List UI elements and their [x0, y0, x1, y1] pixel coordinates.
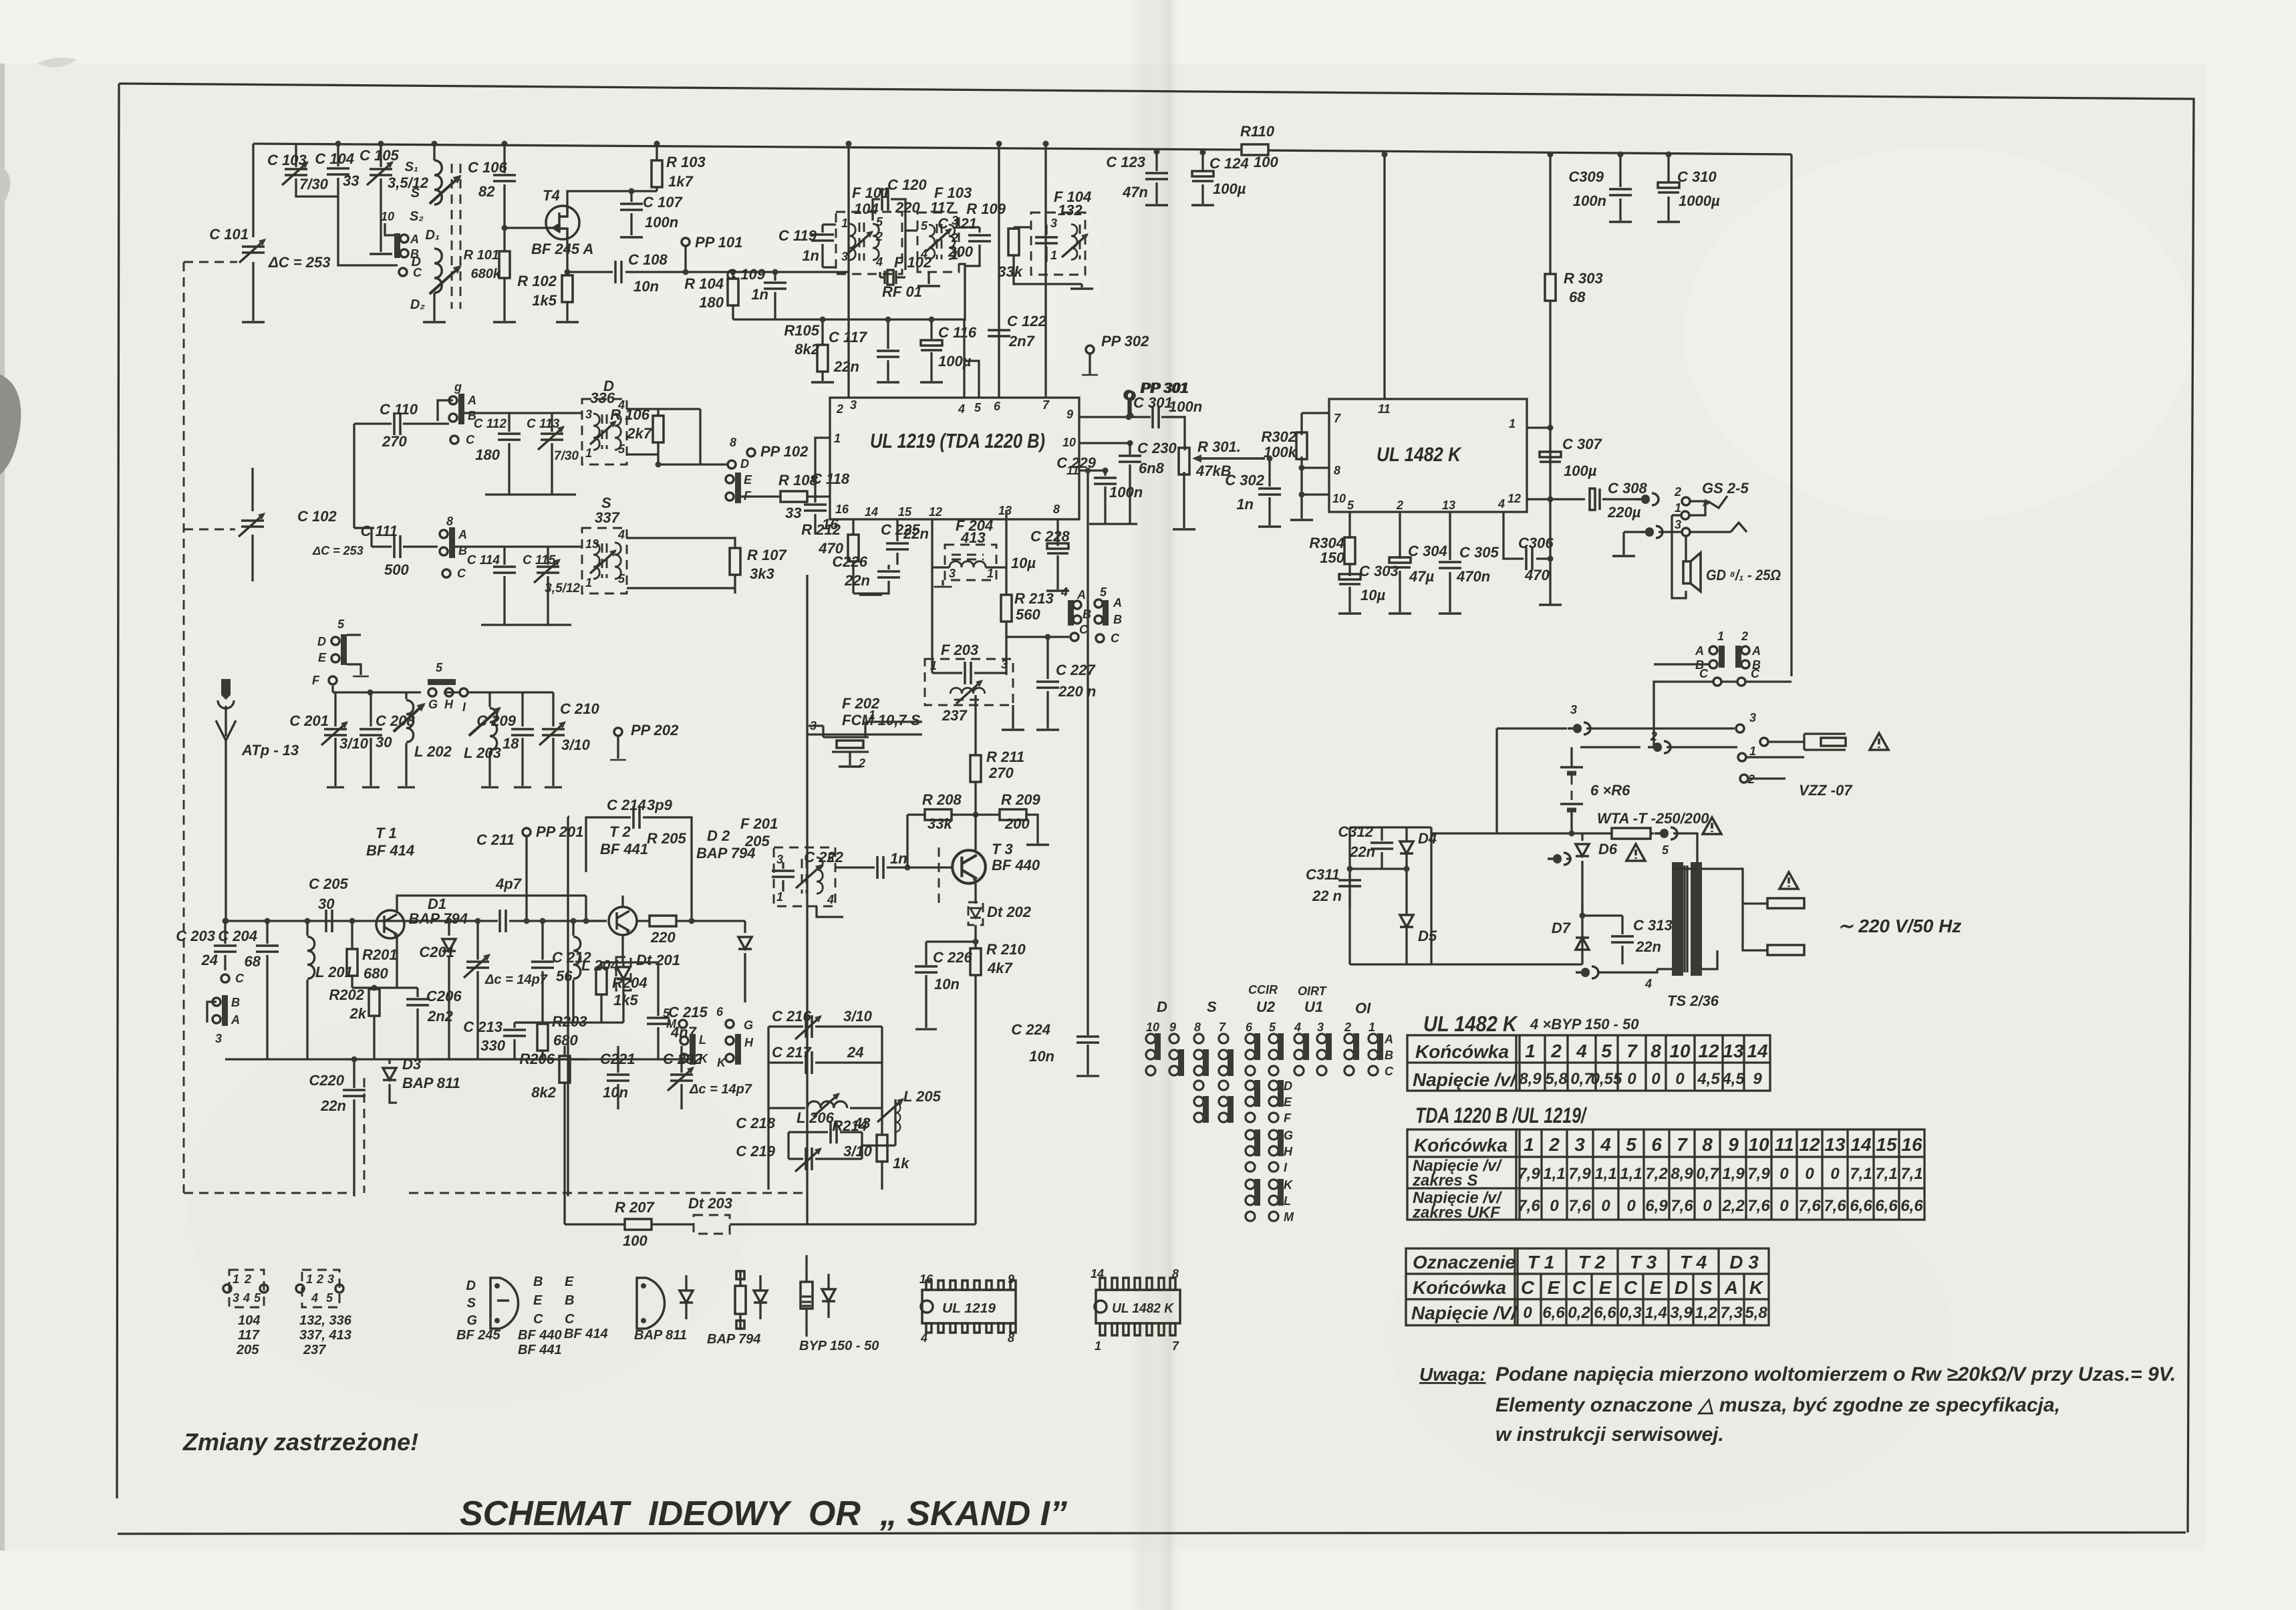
svg-text:7,6: 7,6 [1824, 1197, 1846, 1215]
capacitor C109 [772, 269, 778, 275]
svg-text:C 218: C 218 [736, 1115, 775, 1131]
svg-text:BF 414: BF 414 [366, 842, 414, 859]
svg-text:BYP 150 - 50: BYP 150 - 50 [799, 1339, 879, 1353]
capacitor C102 [251, 468, 253, 581]
capacitor C211 [500, 910, 506, 932]
capacitor C116 electrolytic [921, 340, 942, 350]
legend transistor BF245 [490, 1278, 519, 1329]
svg-text:D 3: D 3 [1729, 1252, 1759, 1272]
svg-text:3: 3 [1001, 658, 1008, 671]
svg-text:14: 14 [1850, 1134, 1872, 1155]
svg-text:C: C [466, 433, 475, 446]
svg-text:C 226: C 226 [933, 949, 972, 966]
svg-text:B: B [410, 247, 419, 261]
svg-text:10n: 10n [603, 1084, 628, 1101]
capacitor C204 [265, 918, 271, 924]
svg-text:B: B [565, 1293, 574, 1308]
svg-text:C: C [235, 972, 245, 985]
svg-text:Zmiany zastrzeżone!: Zmiany zastrzeżone! [182, 1428, 418, 1456]
svg-text:C 302: C 302 [1225, 472, 1264, 489]
svg-text:12: 12 [1799, 1134, 1820, 1155]
jack VZZ-07 [1568, 722, 1590, 734]
fold crease band [1128, 0, 1180, 1610]
svg-text:100µ: 100µ [1213, 180, 1246, 197]
svg-text:6n8: 6n8 [1139, 460, 1165, 477]
tuning arrow S [430, 175, 462, 204]
svg-text:0: 0 [1523, 1304, 1532, 1322]
svg-text:16: 16 [1901, 1134, 1922, 1155]
svg-text:1: 1 [1095, 1339, 1101, 1353]
capacitor C227 [1046, 637, 1048, 728]
ground [877, 382, 899, 383]
svg-text:A: A [467, 394, 476, 407]
capacitor C112 [508, 413, 510, 495]
svg-text:A: A [231, 1013, 240, 1027]
svg-text:470: 470 [1524, 567, 1550, 583]
svg-text:33k: 33k [927, 815, 953, 832]
svg-text:D: D [1157, 998, 1167, 1015]
capacitor C230 [1129, 443, 1131, 523]
legend DIP UL1482K [1096, 1290, 1180, 1323]
svg-text:TDA 1220 B /UL 1219/: TDA 1220 B /UL 1219/ [1415, 1103, 1587, 1127]
svg-text:5: 5 [1269, 1021, 1276, 1034]
svg-text:T 1: T 1 [376, 825, 397, 841]
svg-text:Końcówka: Końcówka [1414, 1135, 1508, 1156]
svg-text:82: 82 [478, 183, 495, 200]
svg-text:2: 2 [316, 1272, 323, 1286]
svg-text:6,6: 6,6 [1875, 1197, 1898, 1215]
svg-text:12: 12 [1508, 492, 1521, 505]
svg-text:1: 1 [233, 1272, 239, 1286]
svg-text:C: C [1699, 667, 1709, 680]
node T4 source [565, 269, 571, 275]
IF transformer S 337 [582, 528, 627, 593]
svg-text:13: 13 [1824, 1134, 1846, 1155]
svg-text:2: 2 [875, 230, 883, 243]
svg-text:220µ: 220µ [1607, 504, 1641, 521]
node [335, 141, 341, 147]
capacitor C210 [552, 692, 554, 786]
svg-text:413: 413 [960, 529, 986, 546]
svg-text:5,8: 5,8 [1745, 1304, 1767, 1322]
svg-text:180: 180 [699, 294, 724, 311]
svg-text:T 2: T 2 [609, 823, 631, 840]
diode D6 [1548, 853, 1570, 865]
svg-text:C 222: C 222 [804, 849, 843, 865]
svg-text:68: 68 [245, 953, 261, 970]
wire F103 in/out [905, 227, 980, 321]
filter F203 [925, 659, 1013, 705]
resistor R106 [627, 409, 658, 464]
switch contact A B second [440, 527, 455, 558]
svg-text:4: 4 [827, 893, 834, 906]
svg-text:BF 441: BF 441 [518, 1343, 562, 1357]
svg-text:2: 2 [858, 757, 865, 770]
svg-text:68: 68 [1569, 289, 1586, 305]
svg-text:SCHEMAT IDEOWY OR „ SKAND I: SCHEMAT IDEOWY OR „ SKAND I” [460, 1494, 1067, 1533]
svg-text:T 2: T 2 [1578, 1252, 1606, 1272]
scanner shadow blob left edge [0, 374, 21, 475]
svg-text:7,1: 7,1 [1900, 1165, 1922, 1183]
wire tuning upper rail [333, 686, 553, 692]
capacitor C220 [353, 1059, 355, 1196]
svg-text:1n: 1n [890, 850, 907, 867]
svg-text:C226: C226 [832, 553, 867, 570]
svg-text:336: 336 [590, 390, 615, 406]
svg-text:WTA -T -250/200: WTA -T -250/200 [1597, 810, 1709, 827]
svg-text:270: 270 [988, 765, 1014, 781]
svg-text:22 n: 22 n [1312, 888, 1342, 904]
svg-text:UL 1482 K: UL 1482 K [1423, 1012, 1519, 1036]
svg-text:A: A [1113, 596, 1122, 610]
svg-text:3: 3 [585, 408, 592, 421]
capacitor C101 [242, 247, 265, 253]
svg-text:2: 2 [1674, 485, 1681, 499]
svg-text:10n: 10n [934, 976, 960, 992]
capacitor C311 [1350, 869, 1407, 909]
svg-text:C 227: C 227 [1056, 662, 1096, 678]
antenna ATp-13 [216, 706, 236, 921]
wire T2 base/emitter [586, 896, 623, 962]
svg-text:5: 5 [876, 215, 883, 229]
svg-text:L 205: L 205 [903, 1088, 942, 1105]
wire top supply bus [253, 144, 1791, 154]
wire C106 branch [503, 144, 505, 321]
resistor R302 [1302, 413, 1329, 519]
svg-text:T 4: T 4 [1680, 1252, 1707, 1272]
svg-text:2: 2 [1550, 1041, 1562, 1061]
svg-text:B: B [231, 996, 240, 1009]
svg-text:7,6: 7,6 [1747, 1197, 1770, 1215]
svg-text:4: 4 [1060, 585, 1068, 599]
svg-text:3: 3 [1050, 217, 1057, 230]
jack GS 2-5 [1682, 497, 1690, 505]
power rail box [1550, 154, 1791, 676]
svg-text:3p9: 3p9 [647, 797, 673, 813]
svg-text:E: E [533, 1293, 543, 1308]
svg-text:14: 14 [1747, 1041, 1768, 1061]
svg-text:C 119: C 119 [778, 227, 817, 244]
switch contact 5 [1103, 600, 1109, 626]
svg-text:100: 100 [623, 1232, 648, 1249]
svg-text:Δc = 14p7: Δc = 14p7 [484, 972, 548, 987]
IF transformer F104 [1031, 213, 1085, 275]
resistor R201 [349, 918, 355, 924]
svg-text:1: 1 [1525, 1041, 1536, 1061]
svg-text:33: 33 [343, 172, 359, 189]
svg-text:BAP 811: BAP 811 [402, 1075, 460, 1091]
wire pin 11 out [1079, 469, 1105, 471]
svg-text:BAP 794: BAP 794 [409, 910, 468, 927]
coil L202 [405, 692, 407, 786]
svg-text:C 110: C 110 [380, 401, 418, 418]
svg-text:C 210: C 210 [560, 700, 599, 717]
svg-text:C 304: C 304 [1408, 543, 1447, 559]
svg-text:6,6: 6,6 [1900, 1197, 1923, 1215]
svg-text:C 108: C 108 [628, 251, 668, 268]
svg-text:7: 7 [1042, 398, 1050, 412]
svg-text:0: 0 [1779, 1165, 1789, 1183]
svg-text:3: 3 [233, 1291, 239, 1305]
svg-text:8: 8 [1334, 464, 1340, 477]
svg-text:1k5: 1k5 [532, 292, 557, 309]
svg-text:C 121: C 121 [938, 215, 977, 232]
svg-text:R206: R206 [519, 1051, 555, 1067]
terminal C [399, 268, 407, 276]
svg-text:3: 3 [1675, 518, 1681, 531]
svg-text:CCIR: CCIR [1248, 983, 1278, 996]
resistor R207 [625, 1219, 652, 1230]
terminal PP202 [614, 728, 622, 736]
capacitor C124 electrolytic [1200, 150, 1206, 156]
svg-text:UL 1219 (TDA 1220 B): UL 1219 (TDA 1220 B) [870, 429, 1045, 452]
wire F204 leads [932, 510, 1006, 673]
svg-text:GD ⁸/₁ - 25Ω: GD ⁸/₁ - 25Ω [1706, 567, 1781, 583]
svg-text:U1: U1 [1304, 998, 1323, 1015]
svg-text:Δc = 14p7: Δc = 14p7 [689, 1082, 752, 1097]
svg-text:A: A [410, 233, 419, 246]
svg-text:C 112: C 112 [474, 417, 507, 431]
svg-text:47n: 47n [1122, 184, 1148, 200]
diode D2 BAP794 [744, 921, 746, 1002]
svg-text:A: A [1384, 1033, 1393, 1046]
svg-text:K: K [717, 1056, 727, 1069]
svg-text:M: M [666, 1017, 677, 1031]
svg-text:C 116: C 116 [938, 324, 977, 341]
svg-text:0,3: 0,3 [1619, 1304, 1642, 1322]
svg-text:R 303: R 303 [1564, 270, 1603, 287]
wire pin11 to bus [1383, 154, 1385, 399]
svg-text:BAP 794: BAP 794 [707, 1332, 760, 1347]
svg-text:205: 205 [744, 833, 770, 849]
coil L205 [862, 1099, 895, 1146]
terminal C second [442, 569, 450, 577]
svg-text:100n: 100n [1573, 192, 1606, 209]
svg-text:10: 10 [1748, 1134, 1769, 1155]
svg-text:1n: 1n [1236, 496, 1254, 513]
diode Dt202 [968, 902, 983, 925]
svg-text:G: G [428, 698, 438, 711]
wire C105 leads [380, 144, 382, 252]
svg-text:0: 0 [1627, 1070, 1636, 1088]
svg-text:4: 4 [920, 247, 927, 261]
IF transformer F101 [836, 212, 902, 274]
svg-text:4: 4 [1644, 977, 1652, 990]
switch contact A B [394, 233, 400, 258]
svg-text:B: B [1385, 1049, 1393, 1062]
capacitor C307 electrolytic [1540, 452, 1561, 462]
ground supply column [1539, 604, 1562, 606]
svg-text:G: G [1284, 1129, 1293, 1142]
svg-text:C 313: C 313 [1633, 917, 1673, 934]
potentiometer R301 [1183, 472, 1185, 528]
svg-text:BF 245 A: BF 245 A [531, 241, 593, 257]
svg-text:B: B [533, 1274, 543, 1289]
svg-text:OIRT: OIRT [1298, 984, 1328, 998]
wire pin1 to C118b [815, 438, 830, 497]
svg-text:1: 1 [987, 567, 994, 580]
svg-text:C: C [457, 567, 466, 580]
svg-text:C 307: C 307 [1562, 436, 1602, 452]
svg-text:C 205: C 205 [309, 876, 348, 892]
svg-text:2,2: 2,2 [1721, 1197, 1745, 1215]
svg-text:7: 7 [1677, 1134, 1688, 1155]
node [432, 141, 438, 147]
capacitor C117 [877, 351, 899, 357]
svg-text:1: 1 [1749, 745, 1756, 758]
svg-text:C 102: C 102 [297, 508, 337, 525]
svg-text:M: M [1284, 1210, 1294, 1224]
IF transformer D 336 [582, 399, 627, 464]
diode D4 [1400, 841, 1413, 853]
capacitor C113 [551, 413, 553, 495]
svg-text:12: 12 [929, 505, 942, 519]
ground [620, 237, 643, 238]
svg-text:C: C [1521, 1277, 1535, 1298]
svg-text:R 205: R 205 [647, 830, 686, 847]
svg-text:C 305: C 305 [1459, 544, 1499, 561]
svg-text:8: 8 [1194, 1021, 1201, 1034]
svg-text:5,8: 5,8 [1545, 1070, 1568, 1088]
svg-text:7,6: 7,6 [1568, 1197, 1591, 1215]
ground [811, 382, 834, 383]
wire C104 leads [338, 144, 398, 265]
switch contact 4A [1068, 600, 1074, 626]
svg-text:D5: D5 [1418, 928, 1437, 944]
svg-text:8k2: 8k2 [531, 1084, 556, 1101]
svg-text:30: 30 [376, 734, 392, 751]
svg-text:270: 270 [382, 433, 407, 450]
capacitor C111 [354, 528, 398, 547]
wire C110 left column [353, 424, 355, 528]
wire long vertical to UL1219 pin3 [847, 144, 849, 398]
svg-text:2: 2 [244, 1272, 251, 1286]
svg-text:0: 0 [1805, 1165, 1814, 1183]
svg-text:E: E [744, 473, 752, 487]
svg-text:w instrukcji serwisowej.: w instrukcji serwisowej. [1495, 1424, 1724, 1446]
capacitor C306 [1503, 512, 1550, 559]
svg-text:2: 2 [1396, 499, 1403, 512]
capacitor C208 [370, 692, 372, 786]
terminal I [460, 688, 468, 696]
svg-text:7: 7 [1626, 1041, 1638, 1061]
svg-text:R 213: R 213 [1014, 590, 1054, 607]
svg-text:1k7: 1k7 [668, 173, 694, 190]
svg-text:S₁: S₁ [405, 160, 418, 174]
capacitor C218 [788, 1131, 862, 1133]
resistor R202 [352, 988, 397, 1059]
svg-text:0: 0 [1601, 1197, 1610, 1215]
svg-text:3/10: 3/10 [339, 735, 369, 752]
wire row to C114 [454, 545, 582, 547]
svg-text:g: g [454, 380, 462, 394]
svg-text:1: 1 [1524, 1134, 1534, 1155]
svg-text:8,9: 8,9 [1671, 1165, 1693, 1183]
ground [493, 321, 516, 323]
svg-text:Końcówka: Końcówka [1415, 1041, 1509, 1062]
svg-text:BF 440: BF 440 [992, 857, 1040, 874]
svg-text:8: 8 [1651, 1041, 1661, 1061]
wire pin 9 out [1079, 417, 1185, 450]
svg-text:2: 2 [836, 402, 843, 416]
svg-text:ATp - 13: ATp - 13 [241, 742, 299, 759]
svg-text:5: 5 [1626, 1134, 1636, 1155]
ground [920, 382, 943, 383]
ground under F103 [917, 285, 940, 287]
wire long vertical to C224 [1087, 471, 1089, 1075]
svg-text:R 212: R 212 [801, 521, 841, 538]
svg-text:104: 104 [238, 1313, 260, 1328]
svg-text:3k3: 3k3 [750, 565, 774, 582]
svg-text:L 204: L 204 [581, 957, 619, 974]
svg-text:5: 5 [436, 661, 443, 674]
svg-text:D: D [466, 1279, 476, 1293]
svg-text:1: 1 [1050, 249, 1057, 262]
ground rail mixer [485, 493, 576, 495]
svg-text:30: 30 [318, 896, 335, 912]
svg-text:C 114: C 114 [467, 553, 500, 567]
node [502, 141, 508, 147]
legend diode BYP150-50 [801, 1282, 813, 1309]
svg-text:7,9: 7,9 [1747, 1165, 1770, 1183]
svg-text:RF 01: RF 01 [882, 283, 922, 300]
capacitor C309 [1619, 154, 1621, 221]
svg-text:7,6: 7,6 [1671, 1197, 1693, 1215]
svg-text:1k: 1k [893, 1155, 910, 1172]
terminal PP302 [1086, 346, 1094, 354]
terminal PP301 [1127, 392, 1135, 400]
svg-text:9: 9 [1066, 408, 1073, 421]
capacitor C219 [788, 1132, 862, 1159]
svg-text:BAP 811: BAP 811 [634, 1328, 687, 1343]
svg-text:C 120: C 120 [887, 176, 927, 193]
capacitor C228 electrolytic [1056, 519, 1058, 589]
legend diode BAP794 [735, 1286, 746, 1314]
wire long vertical to UL1219 pin7 [1044, 144, 1046, 398]
transformer TS 2/36 [1672, 862, 1683, 976]
svg-text:1: 1 [930, 659, 937, 672]
terminal PP201 [523, 828, 531, 836]
svg-text:D: D [317, 635, 326, 648]
switch contacts G H right [726, 1020, 734, 1028]
svg-text:16: 16 [835, 503, 849, 516]
switch contact E F [726, 473, 741, 503]
svg-text:Uwaga:: Uwaga: [1419, 1364, 1486, 1385]
speaker GD [1672, 515, 1686, 598]
wire C103 leads [296, 144, 338, 196]
svg-text:13: 13 [998, 504, 1012, 517]
svg-text:F: F [312, 674, 320, 687]
svg-text:C312: C312 [1338, 823, 1373, 840]
svg-text:1: 1 [1369, 1021, 1375, 1034]
legend 5-pin connector 132,336 [302, 1270, 339, 1307]
svg-text:11: 11 [1378, 402, 1391, 416]
svg-text:F: F [1284, 1111, 1292, 1125]
svg-text:L: L [1284, 1194, 1291, 1208]
svg-text:4: 4 [958, 402, 965, 416]
wire lower rail R104/C109 to IF decoupling [733, 319, 965, 349]
svg-text:R 103: R 103 [666, 154, 706, 170]
svg-text:200: 200 [948, 243, 973, 260]
svg-text:2: 2 [1344, 1021, 1351, 1034]
svg-text:C 115: C 115 [523, 553, 556, 567]
resistor R211 [974, 695, 976, 815]
resistor R208 [907, 815, 976, 867]
svg-text:8k2: 8k2 [795, 341, 819, 358]
oscillator shield box [568, 575, 807, 1196]
svg-text:100n: 100n [645, 214, 678, 231]
svg-text:R 301.: R 301. [1197, 438, 1241, 455]
